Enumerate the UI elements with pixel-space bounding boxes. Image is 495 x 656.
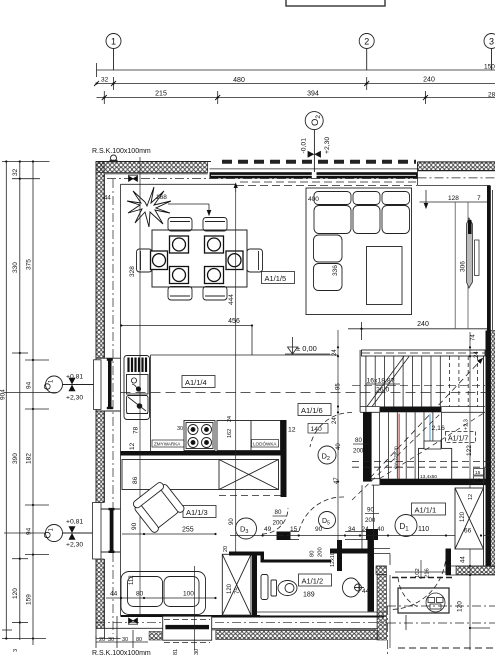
svg-text:12: 12 [129, 442, 136, 450]
left wall exterior line [95, 162, 97, 629]
bottom wall axis dash-dot [96, 621, 387, 623]
svg-text:90: 90 [229, 518, 235, 525]
axis 2 circle [359, 34, 374, 71]
svg-text:ZMYWARKA: ZMYWARKA [154, 442, 181, 447]
left window 1 frame box [94, 360, 102, 410]
svg-text:49: 49 [264, 526, 272, 533]
expansion anchor symbol bottom-left wall [128, 618, 138, 624]
axis 3 circle (cut) [484, 34, 495, 71]
svg-text:A1/1/1: A1/1/1 [415, 506, 437, 515]
svg-text:32: 32 [101, 77, 109, 84]
svg-text:34: 34 [348, 526, 356, 533]
plant in corner [127, 187, 171, 227]
dim line over corridor doors [230, 535, 400, 537]
porch top wall lines [376, 566, 495, 575]
top wall insulation hatch left [96, 162, 208, 173]
svg-text:A1/1/2: A1/1/2 [302, 577, 324, 586]
svg-text:200: 200 [273, 520, 284, 527]
mid landing wall band outline right [360, 407, 485, 413]
svg-text:A1/1/7: A1/1/7 [448, 436, 468, 443]
fridge counter [217, 421, 281, 451]
hall-A1/1/3 wall black [229, 552, 264, 556]
dining table [152, 230, 247, 287]
svg-text:240: 240 [417, 321, 429, 328]
bowtie at O1 upper [69, 378, 76, 391]
svg-text:200: 200 [353, 448, 364, 455]
svg-text:80: 80 [310, 551, 316, 557]
porch inner edge line [389, 575, 391, 648]
svg-text:100: 100 [183, 591, 194, 598]
svg-text:102: 102 [415, 568, 421, 578]
svg-text:66: 66 [464, 528, 472, 535]
svg-text:26,0: 26,0 [376, 387, 389, 394]
small boxed labels right stairs [474, 469, 485, 483]
corner sofa seat cushions top row [314, 206, 410, 234]
chair right [247, 249, 263, 272]
horizontal insulation strip porch top [376, 566, 387, 575]
svg-text:128: 128 [448, 195, 459, 202]
upper flight treads [375, 356, 440, 407]
tick below porch [406, 615, 490, 630]
big window glazing band [210, 172, 418, 178]
svg-text:12: 12 [288, 427, 296, 434]
svg-text:456: 456 [228, 318, 240, 325]
stairs bottom wall black [380, 479, 491, 485]
sink bowls + taps [128, 378, 146, 411]
stair direction dashed diagonal with arrow [370, 360, 481, 478]
svg-text:444: 444 [228, 294, 235, 305]
pantry crossed box (kitchen) [122, 460, 279, 490]
svg-text:110: 110 [418, 526, 429, 533]
svg-text:+2,30: +2,30 [66, 542, 83, 549]
expansion anchor symbol top-left wall [128, 175, 138, 181]
svg-text:150: 150 [484, 64, 495, 71]
porch dashed proj lines [398, 647, 495, 649]
left window 2 jambs [96, 509, 121, 552]
svg-text:1: 1 [111, 37, 116, 47]
svg-text:168: 168 [156, 194, 167, 201]
svg-text:A1/1/5: A1/1/5 [265, 274, 287, 283]
left window 1 glazing [108, 361, 112, 408]
place settings on table [151, 236, 244, 284]
svg-text:30: 30 [177, 426, 183, 432]
bottom window glazing [165, 625, 209, 629]
stairwell left pier black [363, 412, 372, 481]
corner sofa left column cushions [314, 235, 343, 291]
svg-text:+0,81: +0,81 [66, 519, 83, 526]
porch doormat rect [398, 588, 449, 613]
lower flight treads [380, 412, 442, 478]
top wall inner lines left [105, 174, 237, 185]
door label D2 circle [318, 446, 336, 464]
wall pier right of fridge [281, 420, 287, 497]
dim line hall bottom [400, 535, 490, 537]
left wall inner lines [105, 174, 121, 629]
vertical dim line x=235.7 with 444 [235, 185, 237, 615]
svg-text:LODÓWKA: LODÓWKA [253, 441, 277, 447]
room label A1/1/6 [298, 404, 331, 416]
svg-text:+0,81: +0,81 [66, 374, 83, 381]
vertical dim chain x=470 [469, 332, 471, 650]
upper flight dashed treads [450, 356, 478, 407]
kitchen tall unit with radiator and sinks [124, 356, 150, 420]
svg-text:20: 20 [223, 546, 229, 552]
svg-text:A1/1/4: A1/1/4 [185, 378, 207, 387]
top dimension row 3 (215/394) [97, 91, 495, 104]
vertical furniture lines right [455, 202, 468, 329]
svg-text:80: 80 [355, 437, 362, 444]
svg-text:44: 44 [104, 196, 111, 202]
svg-text:189: 189 [303, 592, 315, 599]
door label D1 circle [395, 515, 417, 537]
armchair in A1/1/3 (rotated) [131, 480, 186, 534]
svg-text:94: 94 [26, 527, 33, 535]
svg-text:86: 86 [132, 476, 139, 484]
svg-text:44: 44 [461, 556, 467, 563]
svg-text:24: 24 [227, 416, 233, 422]
svg-text:95: 95 [336, 383, 342, 390]
room label A1/1/1 [412, 503, 446, 515]
svg-text:12: 12 [468, 494, 474, 500]
svg-text:78: 78 [133, 426, 140, 434]
svg-text:74: 74 [471, 334, 477, 341]
±0,00 level mark [285, 337, 330, 354]
svg-text:216: 216 [425, 568, 431, 578]
corner sofa back cushions top [314, 192, 410, 205]
top wall axis dash-dot [107, 177, 495, 180]
top wall insulation hatch right [418, 162, 495, 170]
door swing arc D2 to stairs [310, 412, 352, 447]
svg-text:200: 200 [365, 517, 376, 524]
svg-text:182: 182 [26, 453, 33, 464]
svg-text:336: 336 [332, 265, 339, 276]
svg-text:162: 162 [227, 429, 233, 438]
svg-text:200: 200 [318, 547, 324, 557]
svg-text:47: 47 [334, 477, 340, 484]
top dimension row 2 (axis dims 32/480/240) [97, 77, 495, 90]
entrance door swing arc [398, 577, 418, 607]
svg-text:R.S.K.100x100mm: R.S.K.100x100mm [92, 148, 151, 155]
porch drain symbol [426, 593, 445, 612]
fridge label LODOWKA [252, 440, 279, 448]
svg-text:± 0,00: ± 0,00 [296, 344, 317, 353]
bathroom right jamb wall [337, 540, 342, 571]
top wall exterior line [96, 161, 495, 163]
window marker bowtie at O2 [308, 151, 321, 158]
svg-text:+2,30: +2,30 [324, 137, 331, 154]
radiator on right wall [467, 218, 473, 288]
door swing arc D3 [262, 508, 288, 534]
hall long dashed boundary line [121, 392, 488, 394]
svg-text:3: 3 [489, 37, 494, 47]
door swing arc bathroom 90 door [299, 497, 344, 531]
crossed box hall right (wardrobe) [455, 488, 484, 549]
dashed horizontals lower stairs [352, 461, 490, 467]
svg-text:90: 90 [131, 522, 138, 530]
room label A1/1/7 dashed [446, 432, 476, 443]
svg-text:44: 44 [110, 591, 118, 598]
svg-text:2,16: 2,16 [432, 425, 445, 432]
svg-text:120: 120 [457, 601, 464, 612]
left window 2 frame box [93, 503, 102, 560]
svg-text:30: 30 [194, 649, 200, 655]
vertical dim line x=140 [139, 157, 141, 616]
room label A1/1/2 [299, 574, 332, 586]
bottom-left wall end stubs [96, 616, 121, 639]
left window 2 glazing [110, 510, 114, 551]
left dimension chains [2, 162, 58, 646]
chairs top [168, 218, 227, 232]
svg-text:40: 40 [336, 443, 342, 450]
svg-text:255: 255 [182, 527, 194, 534]
kitchen zone edge [150, 355, 152, 451]
section line red [398, 414, 400, 482]
240 dim line over stairwell [348, 322, 488, 340]
vertical line through bottom window [194, 566, 196, 650]
right wall black band [487, 186, 491, 331]
rainwater pipe symbol on top wall [110, 155, 117, 162]
left window 1 jambs [96, 358, 121, 411]
svg-text:2: 2 [364, 37, 369, 47]
left wall insulation hatch segments [96, 162, 104, 359]
bathroom floor line [256, 611, 386, 613]
radiator stripes in kitchen unit [129, 358, 147, 373]
vertical dim chain x=338 [337, 330, 339, 540]
dishwasher label ZMYWARKA [152, 440, 184, 447]
kitchen worktop thick band [121, 451, 287, 456]
stairwell top wall [362, 350, 486, 356]
svg-text:24: 24 [362, 526, 370, 533]
svg-text:24: 24 [474, 351, 480, 358]
axis marker O2 above top wall [305, 112, 323, 172]
svg-text:215: 215 [155, 91, 167, 98]
hall bottom wall left black [330, 549, 374, 554]
svg-text:480: 480 [233, 77, 245, 84]
svg-text:lw=220cm: lw=220cm [393, 446, 399, 468]
dashed line above stair wall [362, 352, 487, 354]
left wall axis dash-dot [112, 179, 114, 634]
stove with 4 burners [184, 421, 215, 451]
door label D5 small circle [319, 512, 336, 529]
svg-text:375: 375 [26, 259, 33, 270]
svg-text:A1/1/3: A1/1/3 [186, 508, 208, 517]
axis 1 circle [106, 34, 121, 71]
bathroom left wall black [252, 555, 257, 616]
big window in top wall: lintel dashes [222, 160, 416, 164]
right wall lower (stairwell side) [486, 331, 491, 567]
bottom wall insulation hatch [149, 632, 161, 641]
stairwell left wall upper [360, 350, 366, 412]
section line blue [429, 414, 431, 482]
title block box (cut off at top) [286, 0, 385, 6]
mid landing wall band black [380, 407, 442, 413]
axis marker O1 upper [46, 376, 63, 393]
svg-text:3: 3 [13, 649, 19, 652]
svg-text:15: 15 [475, 478, 481, 484]
bottom wall interior face thick (bathroom side) [212, 616, 384, 618]
bottom wall exterior line right part [212, 628, 378, 630]
dashed mid line stairs [352, 385, 485, 387]
svg-text:24: 24 [332, 417, 338, 424]
svg-text:120: 120 [227, 583, 233, 594]
stairwell right wall inner line [483, 356, 485, 566]
svg-text:32: 32 [12, 168, 19, 176]
svg-text:122: 122 [466, 445, 473, 456]
arrow marker near sofa top right [425, 190, 427, 206]
porch axis dash-dot lines [387, 606, 495, 656]
svg-text:90: 90 [315, 526, 323, 533]
svg-text:28: 28 [488, 92, 495, 99]
toilet [271, 580, 297, 596]
svg-text:328: 328 [129, 266, 136, 277]
crossed box bottom (A1/1/3 wardrobe) [222, 554, 251, 615]
svg-text:A1/1/6: A1/1/6 [301, 406, 323, 415]
right wall window edge lines [492, 190, 494, 330]
label 140 boxed [308, 424, 328, 434]
svg-text:40: 40 [377, 526, 385, 533]
svg-text:44: 44 [362, 588, 370, 595]
dashed line under pantry [219, 495, 281, 497]
bathroom shower/heater tall rect [261, 575, 268, 600]
room label A1/1/3 [183, 506, 216, 518]
washbasin [343, 578, 365, 597]
128 dim right room [420, 201, 488, 203]
svg-text:94: 94 [26, 381, 33, 389]
bottom wall interior face [121, 615, 261, 617]
dashed diagonal lower stairs [352, 412, 485, 500]
corridor wall with door openings [277, 532, 291, 541]
vertical insulation strip right of washbasin wall [377, 575, 387, 641]
bottom wall exterior face [96, 628, 376, 630]
svg-text:306: 306 [460, 261, 467, 272]
svg-text:75: 75 [235, 587, 241, 594]
entrance threshold dashes [392, 577, 452, 579]
top wall right inner lines [418, 162, 495, 186]
chair left [137, 249, 153, 272]
coffee table [367, 247, 403, 305]
svg-text:80: 80 [136, 591, 144, 598]
svg-text:80: 80 [275, 509, 282, 516]
svg-text:+2,3: +2,3 [464, 419, 470, 430]
svg-text:15: 15 [475, 470, 481, 476]
svg-text:240: 240 [423, 77, 435, 84]
big window frame line [210, 168, 418, 170]
living room interior boundary: 456 line [121, 326, 339, 356]
svg-text:904: 904 [0, 389, 7, 400]
102/216 door leaf line [395, 571, 450, 573]
svg-text:81: 81 [173, 649, 179, 655]
svg-text:16x18,87: 16x18,87 [367, 378, 395, 385]
top dimension row 1 (total) [97, 63, 495, 77]
chairs bottom [168, 287, 227, 301]
entry junction wall black [446, 549, 452, 576]
big window interior dashed sill lines [236, 182, 417, 186]
svg-text:400: 400 [308, 196, 319, 203]
svg-text:159: 159 [26, 594, 33, 605]
svg-text:120: 120 [460, 511, 466, 522]
stair break line diagonals [367, 357, 409, 407]
svg-text:-0,01: -0,01 [301, 138, 308, 154]
svg-text:R.S.K.100x100mm: R.S.K.100x100mm [92, 650, 151, 656]
svg-text:7: 7 [477, 195, 481, 202]
axis marker O1 lower [46, 525, 63, 542]
room label A1/1/5 [262, 272, 295, 284]
svg-text:390: 390 [12, 453, 19, 464]
platform box over lower flight [419, 448, 452, 481]
bowtie at O1 lower [69, 526, 76, 539]
bottom window/terrace door frame box [163, 616, 212, 640]
svg-text:15: 15 [290, 526, 298, 533]
bathroom top wall black [263, 560, 331, 563]
svg-text:+2,30: +2,30 [66, 395, 83, 402]
door label D3 circle [236, 518, 257, 539]
svg-text:330: 330 [12, 262, 19, 273]
room label A1/1/4 [182, 376, 215, 388]
sofa zone outline rect [306, 188, 412, 315]
bottom sofa [121, 572, 206, 615]
255 dim under armchair [122, 533, 216, 535]
svg-text:394: 394 [307, 91, 319, 98]
svg-text:24: 24 [332, 349, 338, 356]
door D1 swing arc [390, 554, 446, 610]
svg-text:120: 120 [12, 588, 19, 599]
svg-text:112: 112 [129, 575, 135, 585]
hall left wall below stairs [362, 485, 374, 548]
washbasin wall black [368, 538, 375, 612]
